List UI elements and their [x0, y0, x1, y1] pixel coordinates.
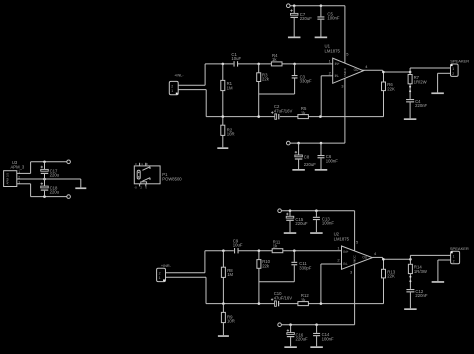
- svg-text:SPEAKER: SPEAKER: [450, 246, 469, 251]
- wire input signal rail (to U2 IN+): [205, 250, 234, 252]
- svg-text:2: 2: [453, 260, 455, 264]
- svg-text:22K: 22K: [387, 86, 395, 91]
- node junction C3/signal rail: [293, 63, 296, 66]
- svg-text:47uF/16V: 47uF/16V: [274, 295, 293, 300]
- svg-text:100nF: 100nF: [327, 16, 339, 21]
- node junction R8-R9/rail: [222, 302, 225, 305]
- svg-text:2: 2: [171, 84, 173, 88]
- wire ground-ref / feedback rail bottom channel: [206, 303, 274, 305]
- svg-text:220uF: 220uF: [300, 16, 312, 21]
- resistor R1 1M: [221, 64, 233, 117]
- resistor R2 10R: [221, 117, 235, 148]
- node dot R7-C4 b: [409, 90, 411, 92]
- wire -V rail top channel: [290, 142, 345, 144]
- ground below C4: [404, 118, 417, 120]
- wire U1 V- to -V rail: [344, 78, 346, 143]
- connector +INR- input right channel: [157, 264, 172, 282]
- svg-text:1M: 1M: [227, 272, 233, 277]
- capacitor C3 330pF: [292, 64, 312, 94]
- resistor R12 1k: [298, 293, 309, 305]
- node -V terminal (top channel): [287, 141, 291, 145]
- node junction C13/+V rail: [315, 209, 318, 212]
- node junction R10/rail: [258, 302, 261, 305]
- node dot R14-C12 b: [409, 280, 411, 282]
- node junction R6/output: [382, 71, 385, 74]
- ground below C7: [288, 37, 301, 39]
- wire input pin1 to ground-ref rail: [178, 89, 206, 91]
- node junction R13/output: [382, 258, 385, 261]
- ground below speaker L: [431, 92, 444, 94]
- wire U3 pin2 ground rail: [17, 178, 81, 180]
- svg-text:1M: 1M: [227, 85, 233, 90]
- wire C3 bottom to R3 branch: [259, 93, 295, 95]
- node junction C7/+V rail: [293, 4, 296, 7]
- svg-text:10uF: 10uF: [231, 56, 241, 61]
- connector U3 APM_3 power input: [4, 160, 25, 187]
- svg-text:2: 2: [159, 271, 161, 275]
- node junction IN- drop/rail: [319, 115, 322, 118]
- capacitor C11 330pF: [291, 251, 311, 282]
- wire U2 IN- to feedback rail: [321, 263, 342, 265]
- svg-text:220u: 220u: [50, 189, 60, 194]
- resistor R4 1k: [271, 53, 282, 66]
- capacitor C5 100nF: [317, 6, 339, 37]
- capacitor C15 220uF: [286, 211, 308, 233]
- node junction R10/signal rail: [258, 249, 261, 252]
- capacitor C12 220nF: [406, 289, 427, 309]
- node junction C14/-V rail: [315, 323, 318, 326]
- svg-text:+INL-: +INL-: [174, 73, 184, 77]
- svg-text:IN+: IN+: [335, 62, 340, 66]
- svg-text:1R/2W: 1R/2W: [414, 79, 427, 84]
- svg-text:APM_3: APM_3: [11, 164, 25, 169]
- capacitor C16 220uF: [287, 325, 308, 347]
- node junction C18/-V wire: [43, 195, 46, 198]
- wire input R pin1 to ground-ref rail: [166, 276, 207, 278]
- svg-text:22k: 22k: [262, 77, 270, 82]
- ground below R9: [218, 335, 229, 337]
- capacitor C9 10uF: [233, 239, 243, 254]
- resistor R8 1M: [221, 251, 233, 304]
- capacitor C14 100nF: [313, 325, 334, 347]
- node junction C16/-V rail: [289, 323, 292, 326]
- svg-text:220uF: 220uF: [295, 221, 307, 226]
- svg-text:POW8500: POW8500: [162, 176, 182, 181]
- svg-text:VMCC: VMCC: [343, 67, 347, 77]
- connector +INL- input left channel: [169, 73, 184, 94]
- svg-text:1: 1: [159, 276, 161, 280]
- node junction C11/signal rail: [293, 249, 296, 252]
- node junction R1-R2/rail: [222, 115, 225, 118]
- svg-text:10R: 10R: [227, 319, 235, 324]
- capacitor C8 220uF: [295, 143, 317, 169]
- wire input signal rail (to U1 IN+): [205, 63, 233, 65]
- switch P1 POW8500: [134, 162, 182, 189]
- svg-text:LM1875: LM1875: [325, 48, 341, 53]
- wire V+ supply to U1 pin 5: [344, 6, 346, 63]
- node dot R7-C4 a: [409, 86, 411, 88]
- node +V terminal (top left channel): [287, 4, 291, 8]
- node junction C15/+V rail: [289, 209, 292, 212]
- wire U2 V- to -V rail: [354, 264, 356, 324]
- svg-text:C8: C8: [304, 154, 310, 159]
- svg-text:220uF: 220uF: [304, 162, 316, 167]
- wire U1 IN- to feedback rail: [321, 75, 333, 77]
- connector SPEAKER left channel: [450, 59, 469, 77]
- resistor R10 22k: [257, 251, 271, 304]
- op-amp U1 LM1875: [325, 43, 364, 83]
- svg-text:+INR-: +INR-: [161, 264, 172, 268]
- wire U2 output: [373, 256, 383, 258]
- svg-text:IN-: IN-: [343, 262, 347, 266]
- capacitor C10 47uF/16V: [271, 291, 292, 306]
- svg-text:SPEAKER: SPEAKER: [450, 59, 469, 64]
- node junction C6/-V rail: [320, 142, 323, 145]
- resistor R13 22K feedback: [382, 259, 396, 303]
- ground below C8: [292, 169, 305, 171]
- node -V supply terminal circle: [67, 195, 71, 199]
- svg-text:IN-: IN-: [335, 74, 339, 78]
- wire ground-ref / feedback rail top channel: [206, 116, 274, 118]
- node junction R7/output: [409, 71, 412, 74]
- svg-text:100nF: 100nF: [322, 221, 334, 226]
- node dot R14-C12 a: [409, 276, 411, 278]
- ground below C15: [284, 232, 297, 234]
- wire input pin2 to signal rail: [178, 84, 205, 86]
- wire U3 pin1 to +V terminal: [17, 172, 31, 174]
- resistor R7 1R/2W: [408, 72, 427, 99]
- svg-text:OU: OU: [362, 256, 367, 260]
- node +V supply terminal circle: [67, 160, 71, 164]
- wire output to speaker L: [409, 68, 411, 72]
- svg-text:VMCC: VMCC: [353, 255, 357, 265]
- resistor R14 1R/3W: [408, 259, 427, 289]
- node junction R3/signal rail: [257, 63, 260, 66]
- capacitor C4 220nF: [406, 99, 427, 119]
- wire +V rail top channel: [290, 5, 345, 7]
- capacitor C6 100nF: [318, 143, 339, 169]
- svg-text:APM 3.5: APM 3.5: [6, 173, 10, 185]
- svg-text:1: 1: [452, 67, 454, 71]
- node junction C5/+V rail: [320, 4, 323, 7]
- wire input R pin2 to signal rail: [166, 272, 205, 274]
- ground below C6: [315, 169, 328, 171]
- wire -V rail bottom channel: [281, 324, 354, 326]
- resistor R11 1k: [272, 240, 283, 253]
- svg-text:2: 2: [452, 72, 454, 76]
- ground below C5: [315, 37, 328, 39]
- node junction C17-C18/ground rail: [43, 178, 46, 181]
- node junction C8/-V rail: [297, 142, 300, 145]
- ground at U3 pin2: [75, 187, 86, 189]
- ground below C13: [310, 232, 323, 234]
- wire C11 bottom to R10 branch: [259, 281, 294, 283]
- wire V+ supply to U2 pin 5: [354, 211, 356, 251]
- svg-text:1: 1: [171, 89, 173, 93]
- svg-text:220nF: 220nF: [415, 293, 427, 298]
- svg-text:IN+: IN+: [343, 250, 348, 254]
- svg-text:100nF: 100nF: [322, 336, 334, 341]
- svg-text:330pF: 330pF: [299, 265, 311, 270]
- ground below R2: [217, 147, 228, 149]
- capacitor C1 10uF: [231, 52, 241, 67]
- node junction R1/signal rail: [222, 63, 225, 66]
- resistor R9 10R: [221, 304, 234, 336]
- svg-text:10R: 10R: [227, 132, 235, 137]
- svg-text:220u: 220u: [50, 173, 60, 178]
- ground below speaker R: [432, 281, 445, 283]
- node junction R8/signal rail: [222, 249, 225, 252]
- svg-text:100nF: 100nF: [326, 158, 338, 163]
- op-amp U2 LM1875: [334, 231, 373, 269]
- wire U1 output: [362, 69, 383, 71]
- resistor R3 22k: [257, 64, 270, 117]
- svg-text:LM1875: LM1875: [334, 236, 350, 241]
- capacitor C13 100nF: [313, 211, 334, 233]
- node junction IN- drop/rail (bottom): [320, 302, 323, 305]
- svg-text:22k: 22k: [262, 263, 270, 268]
- capacitor C17 220u: [41, 162, 60, 179]
- capacitor C18 220u: [41, 179, 60, 197]
- svg-text:22K: 22K: [387, 274, 395, 279]
- resistor R5 1k: [298, 106, 309, 118]
- wire speaker L pin2 to ground: [438, 72, 451, 74]
- node -V terminal (bottom channel): [278, 323, 282, 327]
- svg-text:OU: OU: [354, 68, 359, 72]
- svg-text:220uF: 220uF: [296, 336, 308, 341]
- node junction R3/rail: [257, 115, 260, 118]
- wire speaker R pin2 to ground: [438, 259, 451, 261]
- wire U3 pin3 to -V terminal: [17, 183, 31, 185]
- ground below C16: [284, 346, 297, 348]
- svg-text:1: 1: [453, 254, 455, 258]
- resistor R6 22K feedback: [382, 72, 396, 117]
- node +V terminal (bottom channel): [278, 209, 282, 213]
- svg-text:1R/3W: 1R/3W: [414, 269, 427, 274]
- connector SPEAKER right channel: [450, 246, 469, 264]
- ground below C14: [310, 346, 323, 348]
- svg-text:220nF: 220nF: [415, 103, 427, 108]
- wire +V rail bottom channel: [281, 210, 354, 212]
- svg-text:-0: -0: [134, 185, 137, 189]
- node junction C17/+V wire: [43, 161, 46, 164]
- svg-text:47uF/16V: 47uF/16V: [274, 108, 293, 113]
- capacitor C2 47uF/16V: [271, 104, 292, 119]
- ground below C12: [404, 308, 417, 310]
- svg-text:10uF: 10uF: [233, 243, 243, 248]
- svg-text:330pF: 330pF: [300, 79, 312, 84]
- wire output to speaker R: [409, 255, 411, 259]
- node junction R14/output: [409, 258, 412, 261]
- capacitor C7 220uF: [290, 6, 312, 37]
